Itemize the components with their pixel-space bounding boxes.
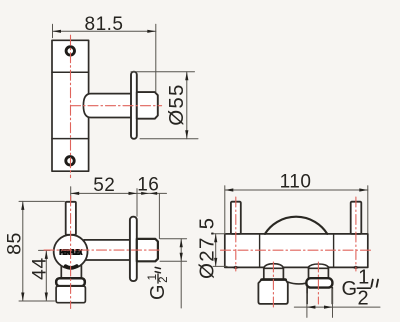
dimension 85 (19, 201, 65, 301)
valve bar body (225, 234, 368, 268)
centerline bottom-right horizontal (221, 249, 374, 251)
body inner line left (259, 234, 261, 268)
outlet right crown (309, 264, 329, 268)
flange (escutcheon, side profile) (130, 217, 137, 281)
valve round body (54, 235, 88, 269)
stem right (351, 202, 362, 234)
square pipe end (137, 239, 158, 261)
body inner line right (333, 234, 335, 268)
nut thick top edge (261, 278, 285, 281)
centerline outlet left (272, 262, 274, 309)
svg-text:85: 85 (3, 232, 25, 255)
nut upper band (56, 278, 85, 286)
plate divider upper (52, 71, 89, 73)
dimension 110 (225, 186, 368, 233)
screw hole bottom (66, 157, 74, 165)
centerline top view vertical (70, 35, 72, 177)
nut lower block (56, 286, 85, 303)
plate divider lower (52, 138, 89, 140)
svg-text:G: G (342, 278, 358, 300)
centerline bottom-left horizontal (44, 249, 162, 251)
dimension 52 (71, 187, 167, 239)
centerline stem left (235, 197, 237, 271)
dimension 44 (39, 250, 51, 301)
svg-text:Ø27.5: Ø27.5 (195, 217, 218, 279)
svg-text:52: 52 (93, 175, 115, 196)
svg-text:16: 16 (137, 175, 159, 196)
centerline bottom-left vertical (70, 196, 72, 309)
dimension 81.5 (53, 24, 156, 92)
brand logo on valve body (59, 250, 82, 255)
dimension G1/2 (left view, rotated) (160, 239, 187, 308)
svg-text:44: 44 (29, 257, 51, 280)
svg-text:2: 2 (158, 276, 170, 282)
centerline top view horizontal (71, 105, 162, 107)
centerline outlet right (317, 262, 319, 304)
svg-text:Ø55: Ø55 (165, 83, 188, 125)
small diamond mark left (231, 266, 240, 269)
stem left (231, 202, 241, 234)
dimension Ø55 (131, 72, 198, 139)
outlet right neck (308, 267, 310, 278)
centre dome (265, 217, 327, 234)
outlet left crown (264, 264, 284, 269)
dimension 16 (141, 192, 149, 195)
connector curve between outlets (288, 282, 306, 284)
wall plate (52, 40, 89, 171)
pipe (horizontal cylinder with rounded left cap) (83, 94, 131, 118)
small diamond mark right (352, 266, 361, 269)
dimension Ø27.5 (212, 234, 228, 267)
G1/2 label (rotated) (147, 267, 170, 300)
valve stem (66, 202, 76, 235)
centerline stem right (355, 197, 357, 271)
outlet neck below body (60, 262, 62, 278)
G1/2 label (342, 267, 379, 310)
svg-text:G: G (147, 284, 169, 300)
pipe to flange (84, 240, 131, 260)
outlet right pipe sides (306, 288, 308, 304)
svg-text:1: 1 (358, 267, 369, 289)
flange (wall escutcheon, side profile) (131, 72, 137, 139)
outlet left neck (263, 268, 265, 280)
screw hole top (66, 47, 74, 55)
outlet left nut (258, 279, 287, 304)
dimension G1/2 (right view) (294, 289, 380, 317)
square pipe end (137, 92, 158, 119)
svg-text:110: 110 (280, 172, 312, 193)
svg-text:2: 2 (358, 288, 369, 310)
svg-text:81.5: 81.5 (85, 14, 124, 35)
thick arc at circle/neck junction (66, 266, 77, 268)
outlet right collar (306, 278, 332, 287)
